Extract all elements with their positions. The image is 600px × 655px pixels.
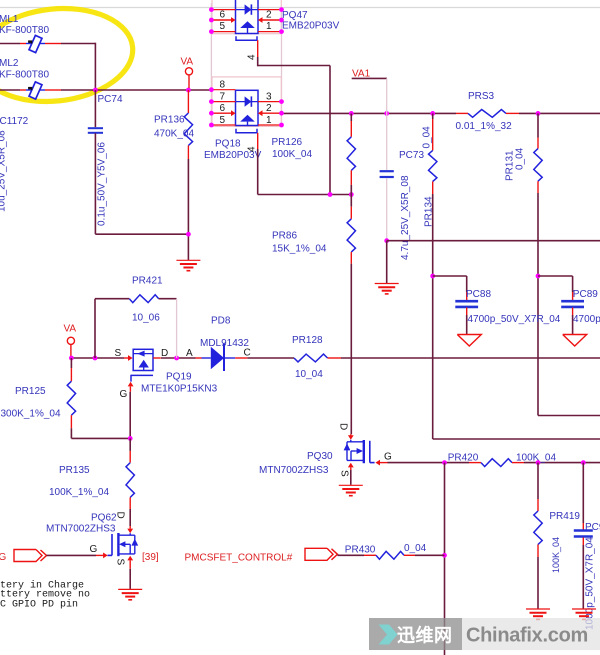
comment text — [0, 580, 90, 611]
junction VA/PR136 — [186, 88, 191, 93]
label PRS3 — [456, 91, 513, 132]
svg-text:PC88: PC88 — [466, 289, 491, 300]
svg-text:S: S — [115, 559, 126, 566]
label ML2 — [0, 58, 49, 81]
junction rail PR421 left — [93, 356, 98, 361]
label PR86 — [272, 230, 327, 254]
junction rail VA1 — [384, 111, 389, 116]
svg-text:3: 3 — [266, 92, 272, 103]
node VA1 — [352, 69, 387, 114]
pin2 PQ47 — [258, 10, 284, 23]
value PC89 — [573, 314, 600, 325]
transistor PQ18 glyph — [236, 90, 259, 125]
resistor PR126 — [347, 113, 355, 194]
wire ML1 to node — [94, 43, 96, 90]
wire PR134 exit right — [433, 438, 600, 440]
svg-text:VA: VA — [64, 324, 77, 335]
ground PC9x — [572, 609, 596, 619]
wire PQ19 gate down — [129, 392, 131, 439]
svg-text:KF-800T80: KF-800T80 — [0, 70, 49, 81]
svg-text:10_04: 10_04 — [295, 369, 323, 380]
svg-text:4.7u_25V_X5R_08: 4.7u_25V_X5R_08 — [400, 175, 411, 260]
svg-text:MTE1K0P15KN3: MTE1K0P15KN3 — [141, 383, 218, 394]
svg-text:PR125: PR125 — [15, 386, 46, 397]
resistor PR134 — [429, 113, 437, 439]
ground PC88 chassis — [457, 335, 481, 347]
pin4 PQ47 tab — [236, 36, 258, 66]
pin7 PQ47 — [209, 7, 236, 12]
package outline PQ47 — [212, 0, 281, 34]
svg-text:6: 6 — [220, 10, 226, 21]
svg-text:2: 2 — [266, 103, 272, 114]
junction rail PR131 — [536, 111, 541, 116]
svg-text:7: 7 — [220, 92, 226, 103]
label C1172 — [0, 116, 29, 127]
inductor ML1 — [26, 35, 45, 52]
pin2 PQ18 — [258, 103, 282, 116]
pin6 PQ18 — [209, 103, 236, 116]
svg-text:PR421: PR421 — [132, 275, 163, 286]
label PR134 rot — [424, 196, 435, 227]
pin1 PQ18 — [258, 115, 284, 127]
pin4 PQ18 tab — [236, 129, 258, 195]
junction PR136/PC74 — [186, 232, 191, 237]
svg-text:PR135: PR135 — [59, 465, 90, 476]
value C1172 — [0, 130, 8, 212]
label PR136 — [154, 115, 194, 140]
label PR128 — [292, 335, 323, 380]
value PR419 rot — [551, 537, 561, 573]
label PQ19 — [141, 371, 218, 394]
label PC88 — [466, 289, 491, 300]
svg-text:PQ18: PQ18 — [215, 138, 241, 149]
net ref [39] — [142, 552, 159, 563]
resistor PR430 — [338, 551, 445, 559]
junction PR430 — [442, 553, 447, 558]
label PR125 — [1, 386, 61, 420]
wire x444 down — [444, 463, 446, 655]
svg-text:S: S — [115, 348, 122, 359]
svg-text:PR430: PR430 — [345, 545, 376, 556]
wire input rail y90 — [95, 89, 211, 91]
svg-text:D: D — [338, 423, 349, 430]
svg-text:G: G — [384, 452, 392, 463]
svg-text:0_04: 0_04 — [404, 543, 427, 554]
pin5 PQ18 — [209, 115, 236, 127]
wire PR131 exit right — [538, 415, 600, 417]
junction rail PR126 — [349, 111, 354, 116]
svg-text:C GPIO PD pin: C GPIO PD pin — [0, 599, 78, 611]
svg-text:4: 4 — [247, 146, 258, 152]
label ML1 — [0, 14, 49, 36]
node VA top — [181, 57, 194, 89]
capacitor PC9x — [574, 463, 593, 609]
right rail PQ47/PQ18 — [281, 10, 283, 125]
wire main rail y358 — [71, 357, 600, 359]
junction gate/PR125 — [128, 436, 133, 441]
yellow highlight ellipse around ML1/ML2 — [0, 1, 137, 109]
svg-text:PC89: PC89 — [573, 289, 598, 300]
watermark cn text — [397, 625, 453, 646]
capacitor PC89 — [538, 276, 584, 334]
wire output rail y113 — [282, 112, 600, 114]
svg-text:100K_04: 100K_04 — [272, 149, 312, 160]
node A — [186, 348, 193, 359]
label PR419 — [549, 511, 580, 522]
connector arrow PR430 — [305, 548, 338, 560]
svg-text:MDL91432: MDL91432 — [200, 338, 249, 349]
svg-text:10u_25V_X5R_08: 10u_25V_X5R_08 — [0, 130, 8, 212]
label PQ18 — [204, 138, 262, 161]
svg-text:S: S — [339, 470, 350, 477]
svg-text:D: D — [161, 348, 168, 359]
junction PR131/PC89 — [536, 274, 541, 279]
svg-text:100K_1%_04: 100K_1%_04 — [49, 487, 109, 498]
wire ground rail y241 — [387, 240, 600, 242]
junction rail VA/PR125 — [69, 356, 74, 361]
svg-text:Chinafix.com: Chinafix.com — [466, 625, 588, 647]
capacitor PC88 — [433, 276, 478, 334]
svg-text:PR134: PR134 — [424, 196, 435, 227]
ground PQ30 — [339, 485, 363, 495]
svg-text:8: 8 — [220, 80, 226, 91]
resistor PR86 — [347, 195, 355, 435]
svg-text:PR420: PR420 — [448, 453, 479, 464]
svg-text:PR126: PR126 — [272, 137, 303, 148]
label PD8 — [200, 315, 249, 349]
resistor PR421 — [95, 295, 177, 358]
label PQ47 — [282, 10, 340, 31]
svg-text:PD8: PD8 — [211, 315, 231, 326]
label PC9x — [585, 522, 600, 533]
svg-text:C: C — [244, 348, 251, 359]
junction rail PR134 — [430, 111, 435, 116]
svg-text:PQ30: PQ30 — [307, 451, 333, 462]
svg-text:5: 5 — [220, 115, 226, 126]
svg-text:5: 5 — [220, 21, 226, 32]
value PC73 — [400, 175, 411, 260]
left rail PQ47/PQ18 — [210, 3, 212, 125]
svg-text:ML1: ML1 — [0, 14, 19, 25]
pin3 PQ18 — [258, 92, 284, 105]
label PC74 — [98, 94, 123, 105]
node C — [244, 348, 251, 359]
svg-text:0_04: 0_04 — [422, 126, 433, 149]
svg-text:VA: VA — [181, 57, 194, 68]
resistor PR128 — [294, 354, 341, 362]
svg-text:迅维网: 迅维网 — [397, 625, 453, 646]
svg-text:PMCSFET_CONTROL#: PMCSFET_CONTROL# — [185, 553, 293, 564]
label PQ62 — [46, 513, 117, 535]
wire PQ30 gate rail — [388, 462, 600, 464]
label PR135 — [49, 465, 109, 498]
wire PQ47 drain to bus — [258, 66, 330, 195]
junction PC74 — [93, 88, 98, 93]
svg-text:KF-800T80: KF-800T80 — [0, 25, 49, 36]
wire input ML1 row — [0, 43, 95, 45]
pin5 PQ47 — [209, 21, 236, 34]
svg-text:PR128: PR128 — [292, 335, 323, 346]
wire G to gate — [47, 544, 108, 558]
svg-text:MTN7002ZHS3: MTN7002ZHS3 — [46, 523, 116, 534]
svg-text:G: G — [0, 552, 7, 563]
svg-text:G: G — [90, 544, 98, 555]
svg-text:PC74: PC74 — [98, 94, 123, 105]
pin6 PQ47 — [209, 10, 236, 23]
capacitor PC74 — [88, 90, 189, 234]
svg-text:MTN7002ZHS3: MTN7002ZHS3 — [259, 465, 329, 476]
value PR131 rot — [515, 147, 526, 170]
label PR131 rot — [505, 150, 516, 181]
svg-text:4700p_50V_X7R_04: 4700p_50V_X7R_04 — [573, 314, 600, 325]
svg-text:300K_1%_04: 300K_1%_04 — [1, 409, 61, 420]
svg-text:PQ62: PQ62 — [91, 513, 117, 524]
value PC88 — [468, 314, 561, 325]
svg-text:A: A — [186, 348, 193, 359]
diode PD8 — [196, 344, 248, 371]
wire input ML2 row — [0, 89, 95, 91]
svg-text:4: 4 — [247, 54, 258, 60]
svg-text:C1172: C1172 — [0, 116, 29, 127]
svg-text:PR419: PR419 — [549, 511, 580, 522]
junction PC9x — [581, 460, 586, 465]
watermark logo chevron — [379, 625, 398, 645]
svg-text:PC96: PC96 — [585, 522, 600, 533]
value PR134 rot — [422, 126, 433, 149]
svg-text:PR86: PR86 — [272, 230, 297, 241]
pin8 PQ18 — [209, 80, 236, 93]
ground PR419 — [526, 609, 550, 619]
resistor PR136 — [184, 90, 192, 260]
resistor PRS3 — [456, 110, 519, 118]
transistor PQ47 glyph — [236, 0, 259, 34]
ground PR136 — [176, 260, 200, 270]
ground PQ62 — [118, 589, 142, 599]
resistor PR419 — [534, 463, 542, 609]
svg-text:PR136: PR136 — [154, 115, 185, 126]
net label G — [0, 552, 7, 563]
pin3 PQ47 — [258, 7, 284, 12]
package outline PQ18 — [212, 77, 281, 127]
net label PMCSFET_CONTROL# — [185, 553, 293, 564]
capacitor PC73 — [380, 113, 394, 240]
svg-text:2: 2 — [266, 10, 272, 21]
watermark bar — [369, 618, 600, 650]
watermark en text — [466, 625, 588, 647]
label PQ30 — [259, 451, 333, 476]
svg-text:0.1u_50V_Y5V_06: 0.1u_50V_Y5V_06 — [97, 142, 108, 226]
pin1 PQ47 — [258, 21, 284, 34]
svg-text:PQ19: PQ19 — [166, 371, 192, 382]
svg-text:0_04: 0_04 — [515, 147, 526, 170]
svg-text:G: G — [120, 389, 128, 400]
label PR421 — [132, 275, 163, 323]
svg-text:100K_04: 100K_04 — [551, 537, 561, 573]
svg-text:470K_04: 470K_04 — [154, 128, 194, 139]
connector arrow G — [14, 550, 47, 562]
resistor PR125 — [67, 358, 130, 438]
svg-text:6: 6 — [220, 103, 226, 114]
junction PR419 — [536, 460, 541, 465]
svg-text:PC73: PC73 — [399, 150, 424, 161]
junction PC73 gnd — [384, 238, 389, 243]
label PC89 — [573, 289, 598, 300]
label PR420 — [448, 453, 557, 464]
svg-text:4700p_50V_X7R_04: 4700p_50V_X7R_04 — [468, 314, 561, 325]
resistor PR131 — [534, 113, 542, 415]
value PC74 — [97, 142, 108, 226]
transistor PQ62 — [108, 512, 139, 589]
svg-text:1: 1 — [266, 21, 272, 32]
svg-text:1: 1 — [266, 115, 272, 126]
resistor PR135 — [126, 438, 134, 526]
svg-text:15K_1%_04: 15K_1%_04 — [272, 244, 327, 255]
svg-text:[39]: [39] — [142, 552, 159, 563]
transistor PQ19 — [115, 348, 169, 400]
svg-text:ML2: ML2 — [0, 58, 19, 69]
label PR430 — [345, 543, 427, 556]
svg-text:0.01_1%_32: 0.01_1%_32 — [456, 121, 513, 132]
node VA lower — [64, 324, 77, 358]
junction PR420 left — [442, 460, 447, 465]
junction drain bus x330 — [328, 192, 333, 197]
junction rail PQ18 — [279, 111, 284, 116]
label PR126 — [272, 137, 313, 160]
value PC9x rot — [585, 537, 596, 630]
transistor PQ30 — [338, 423, 392, 485]
junction PR134/PC88 — [430, 274, 435, 279]
top window edge line — [0, 7, 600, 9]
inductor ML2 — [26, 82, 45, 99]
wire drains bus y194.5 — [258, 194, 352, 196]
resistor PR420 — [469, 459, 524, 467]
junction drain bus x351 — [349, 192, 354, 197]
ground PC89 chassis — [563, 335, 587, 347]
svg-text:10_06: 10_06 — [132, 313, 160, 324]
label PC73 — [399, 150, 424, 161]
junction rail PQ19 drain — [174, 356, 179, 361]
svg-text:PRS3: PRS3 — [468, 91, 495, 102]
ground PC73 — [375, 241, 399, 294]
svg-text:EMB20P03V: EMB20P03V — [282, 20, 340, 31]
pin7 PQ18 — [209, 92, 236, 105]
